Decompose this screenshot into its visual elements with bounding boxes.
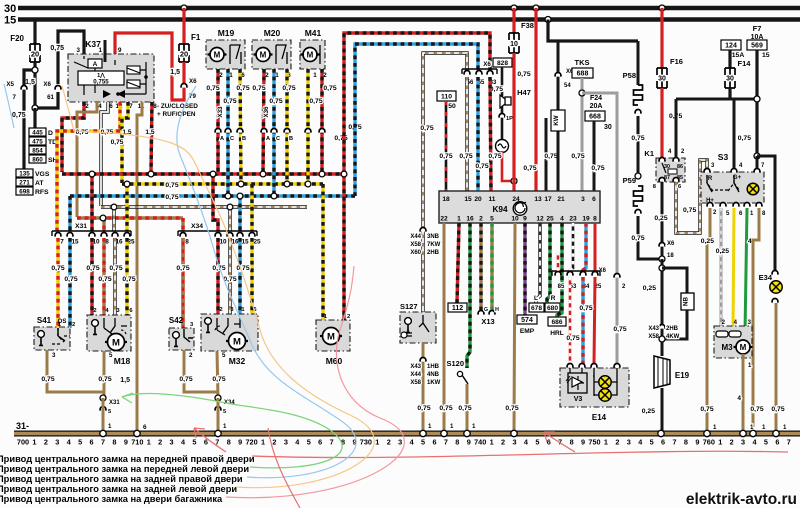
wire H47 to K94 pin 24 [502,151,512,181]
wire E19 to bus [661,388,664,432]
wire K94-10 brown to bus [514,223,515,432]
svg-text:4: 4 [560,216,564,223]
annotation red arrow at E14 [544,432,575,452]
wire S127 to bus [422,343,425,432]
svg-text:854: 854 [32,148,43,155]
svg-text:1: 1 [604,438,608,447]
svg-text:15: 15 [71,239,79,246]
node on bus 30 [181,5,187,11]
svg-text:S120: S120 [446,359,464,368]
wire X6-56 to K94 pin 15 [465,77,468,191]
svg-text:124: 124 [725,43,737,50]
wire S3 pin8 brown to bus [753,208,759,432]
svg-text:S127: S127 [400,302,418,311]
svg-text:X6: X6 [43,81,51,88]
svg-text:2: 2 [323,72,327,79]
svg-text:- ZU/CLOSED: - ZU/CLOSED [157,103,198,110]
svg-text:25: 25 [253,239,261,246]
svg-text:574: 574 [521,317,533,324]
wire E34 to bus [775,303,778,432]
wire F16 to K1 pin 4 [660,88,663,158]
mesh horizontal yellow-black y184 [122,182,323,185]
svg-text:M19: M19 [218,28,235,38]
svg-text:13: 13 [534,196,542,203]
svg-text:0,75: 0,75 [122,276,135,283]
wire bus15 to P58 [548,20,638,42]
svg-text:X44: X44 [410,234,421,240]
svg-text:686: 686 [551,319,562,326]
connector X13 [478,310,484,314]
svg-text:1,5: 1,5 [145,129,154,136]
svg-text:0,75: 0,75 [334,135,347,142]
svg-text:EMP: EMP [520,328,535,335]
svg-text:X31: X31 [75,223,87,230]
svg-text:1: 1 [783,424,787,431]
stub clamp 85 [557,252,560,271]
connector X36 clamps [261,129,267,133]
bus 30 (battery rail) [18,6,800,11]
svg-text:HRL: HRL [550,330,564,337]
annotation red curve lower [268,428,300,508]
svg-text:P59: P59 [623,176,636,185]
svg-text:50: 50 [448,103,456,110]
wire X34-15 blue-black [238,196,241,231]
svg-text:750: 750 [588,438,600,447]
svg-text:0,75: 0,75 [41,376,54,383]
fuse F14 [728,50,731,68]
motor M19 central locking front right [206,40,245,69]
svg-text:740: 740 [474,438,486,447]
svg-text:0,75: 0,75 [439,405,452,412]
svg-text:H47: H47 [517,88,531,97]
svg-text:20: 20 [180,50,188,59]
wire 668 to K94 pin 6 [593,121,596,191]
connector X31 [52,231,131,236]
svg-text:E19: E19 [675,371,690,380]
svg-text:VGS: VGS [35,171,50,178]
svg-text:16: 16 [466,216,474,223]
connector X33 clamps [215,129,221,133]
wire 828 to horn H47 [501,67,504,140]
wire K37 pin8 to mesh [151,102,152,172]
svg-text:15: 15 [762,52,770,59]
gray wire TKS to lamp unit E14 [582,93,617,364]
wire X31-10 to M18 pin2 [90,238,93,316]
wire K37 pin6 to mesh [101,102,108,206]
svg-text:688: 688 [577,71,589,78]
node X31 to bus 31 [100,395,106,401]
svg-text:F16: F16 [670,57,683,66]
svg-text:30: 30 [658,76,666,83]
svg-text:Привод центрального замка на п: Привод центрального замка на передней пр… [0,454,255,464]
wire X31-15 to S41 pin2 [68,238,71,328]
svg-text:1: 1 [229,72,233,79]
svg-text:0,75: 0,75 [236,265,249,272]
svg-text:20A: 20A [590,103,603,110]
svg-text:F20: F20 [10,34,24,43]
svg-text:0,75: 0,75 [223,98,236,105]
svg-text:9: 9 [124,438,128,447]
svg-text:12: 12 [536,216,544,223]
heater element P59 [634,186,643,206]
svg-text:678: 678 [531,305,542,312]
wire 110 to K94 pin 18 [445,101,448,191]
svg-text:0,75: 0,75 [683,207,696,214]
junction on TKS wire [579,90,585,96]
svg-text:22: 22 [440,216,448,223]
wire X34-8 to S42 pin3 [181,238,184,329]
svg-text:Привод центрального замка на з: Привод центрального замка на задней прав… [0,474,243,484]
svg-text:1HB: 1HB [427,364,440,370]
svg-text:85: 85 [558,284,565,290]
resistor NB branch [662,268,687,293]
svg-text:730: 730 [360,438,372,447]
svg-text:2: 2 [219,307,222,313]
svg-text:11: 11 [489,196,496,203]
svg-text:M: M [740,343,747,352]
svg-text:A: A [93,61,98,68]
wire X34-15 to M32 pin1 [238,238,241,315]
wire X6-83 to K94 pin 11 [490,77,491,191]
wire X31-25 yellow-black [125,184,128,231]
svg-text:3: 3 [170,438,174,447]
svg-text:5: 5 [109,352,113,359]
svg-text:X5: X5 [6,81,14,88]
svg-text:2: 2 [265,72,269,79]
svg-text:F1: F1 [191,33,201,42]
svg-text:1: 1 [490,438,494,447]
svg-text:+ RUF/OPEN: + RUF/OPEN [157,111,196,118]
svg-text:828: 828 [497,60,508,67]
connector X6 pin 61 [55,86,61,90]
svg-text:0,75: 0,75 [98,376,111,383]
box KW [551,110,565,131]
wire K94-9 to box 574 EMP [523,223,526,315]
wire X31-15 blue-black [68,196,71,231]
wire X31-10 red-black [90,174,93,231]
svg-text:7: 7 [129,103,133,110]
svg-text:30: 30 [4,3,16,15]
svg-text:A: A [220,136,224,142]
svg-text:5: 5 [650,438,654,447]
svg-text:X31: X31 [109,400,120,406]
svg-text:8: 8 [455,438,459,447]
wire M19-2 red-black [216,69,219,174]
svg-text:87: 87 [664,175,670,181]
svg-text:7: 7 [101,438,105,447]
svg-text:0,75: 0,75 [323,85,336,92]
svg-text:3: 3 [741,438,745,447]
svg-text:2: 2 [615,438,619,447]
code boxes 135/271/698 [16,169,33,177]
motor M60 trunk lock [316,320,350,351]
svg-text:720: 720 [246,438,258,447]
svg-text:6: 6 [592,196,596,203]
svg-text:0,75: 0,75 [631,235,644,242]
svg-text:5: 5 [490,216,494,223]
svg-text:X43: X43 [410,364,421,370]
wire X31-7 to S41 pin1 [56,238,59,328]
wire X31-16 to M18 pin3 [113,238,116,316]
wire to K94 pin 17 [545,118,548,191]
mesh horizontal red-black y174 [62,172,345,175]
svg-text:8: 8 [105,239,109,246]
blue-black arc to connector X6-55 [355,44,478,196]
wire K94-8 to clamp 25 [594,223,597,273]
svg-text:15: 15 [464,196,472,203]
svg-text:0,75: 0,75 [109,265,122,272]
svg-text:0,75: 0,75 [488,153,501,160]
box 110 / 50 [437,91,456,101]
svg-text:0,75: 0,75 [475,163,488,170]
S3 interior contacts [707,175,740,191]
svg-text:6: 6 [432,438,436,447]
svg-text:3: 3 [55,438,59,447]
svg-text:S3: S3 [718,152,729,162]
svg-text:31-: 31- [16,421,29,431]
svg-text:6: 6 [90,438,94,447]
wire to S3 pin 4 [733,99,736,170]
ground bus 31 [14,431,800,437]
svg-text:1: 1 [450,423,454,430]
svg-text:9: 9 [523,216,527,223]
wire M41-1 yellow-black [306,69,309,184]
node to E34 branch [754,153,760,159]
svg-text:21: 21 [557,196,565,203]
svg-text:110: 110 [441,94,452,101]
svg-text:3: 3 [52,352,56,359]
svg-text:M: M [233,336,241,347]
horizontal red-yellow link y131 [57,131,120,231]
svg-text:0,25: 0,25 [716,248,729,255]
wire M20-1 blue-black [272,69,275,196]
svg-text:Привод центрального замка на з: Привод центрального замка на задней лево… [0,484,237,494]
svg-text:NB: NB [683,297,690,306]
bus 31 junction dots [100,430,106,436]
svg-text:0,75: 0,75 [51,265,64,272]
wire to S3 pin 7 [756,156,759,170]
wire M3 pin1 to bus [742,354,745,432]
svg-text:0,75: 0,75 [165,182,178,189]
svg-text:25: 25 [546,216,554,223]
svg-text:18: 18 [442,196,450,203]
mesh horizontal brown-red y218 [77,216,183,219]
motor M3 [714,326,752,358]
svg-text:6: 6 [775,438,779,447]
wire K94-25 to box 680 [547,223,550,303]
svg-text:445: 445 [32,130,43,137]
svg-text:23: 23 [569,216,577,223]
svg-text:20: 20 [474,196,482,203]
svg-text:2: 2 [347,314,350,320]
svg-text:V3: V3 [574,396,583,403]
wire F14 chain to K1 pin 2 [675,99,678,158]
svg-text:0,25: 0,25 [701,238,714,245]
svg-text:710: 710 [131,438,143,447]
svg-text:7: 7 [60,239,64,246]
wire K37 pin7 to mesh [122,102,128,183]
svg-text:7KW: 7KW [427,242,441,248]
svg-text:569: 569 [751,43,763,50]
svg-text:0,75: 0,75 [212,376,225,383]
svg-text:19: 19 [582,216,590,223]
wire M20-6 yellow-black [285,69,288,184]
wire K94-2 to X13-G [479,223,482,310]
S3 bottom clamps [707,203,713,207]
svg-text:1: 1 [99,47,103,54]
svg-text:1: 1 [32,438,36,447]
wire X34-25 yellow-black [250,184,253,231]
svg-text:S42: S42 [169,316,184,325]
svg-text:4: 4 [737,395,741,402]
wire X34-10 to M32 pin2 [216,238,219,315]
svg-text:0,75: 0,75 [309,98,322,105]
svg-text:E14: E14 [592,413,607,422]
svg-text:R: R [708,176,713,182]
svg-text:M: M [327,331,335,342]
svg-text:K1: K1 [644,149,654,158]
wire to code boxes [33,108,36,128]
svg-text:2HB: 2HB [666,326,679,332]
svg-text:0,25: 0,25 [654,215,667,222]
wire P59 to node [638,216,662,259]
svg-text:54: 54 [564,83,571,89]
svg-text:C: C [230,136,234,142]
svg-text:0,75: 0,75 [269,98,282,105]
motor M18 central locking [87,315,131,351]
annotation curve red legend line 1 [252,451,788,457]
svg-text:8: 8 [185,239,189,246]
wire S3 pin6 yellow to M3 [733,208,734,333]
wire X31-8 brown-red [102,218,105,231]
svg-text:8: 8 [112,438,116,447]
motor M32 central locking [201,314,258,351]
svg-text:0,75: 0,75 [566,335,579,342]
connector bar X6 56/55/83 [462,69,497,74]
svg-text:1: 1 [147,438,151,447]
annotation red arrow at M32 [194,428,226,452]
svg-text:6: 6 [661,438,665,447]
svg-text:0,75: 0,75 [738,135,751,142]
svg-text:0,75: 0,75 [544,153,557,160]
connector clamps M41 [305,128,311,132]
mesh horizontal white-brown y207 [101,205,307,208]
mesh junction dots [89,171,95,177]
svg-text:9: 9 [467,438,471,447]
svg-text:668: 668 [589,114,601,121]
wire X34-8 brown-red [181,218,184,231]
svg-text:5: 5 [535,438,539,447]
svg-text:C: C [276,136,280,142]
wire S42 pin2 to node X34 [184,350,218,392]
svg-text:M: M [112,337,120,348]
svg-text:X34: X34 [191,223,203,230]
svg-text:1: 1 [718,438,722,447]
svg-text:G: G [484,307,488,313]
svg-text:1,5: 1,5 [25,79,35,86]
svg-text:A: A [266,136,270,142]
horizontal link F14 [676,98,757,101]
svg-text:0,75: 0,75 [523,165,536,172]
svg-text:0,75: 0,75 [750,406,763,413]
wire white-brown K1 pin 6 to S3 pin 3 [676,160,707,233]
svg-text:1: 1 [457,216,461,223]
svg-text:9: 9 [118,47,122,54]
lamp in S3 [747,183,759,195]
svg-text:1: 1 [261,438,265,447]
wire K1-8 chain down to E19 [661,259,664,356]
svg-text:0,75: 0,75 [417,405,430,412]
svg-text:M20: M20 [264,28,281,38]
connector X6 pin 79 [181,84,187,88]
svg-text:3: 3 [627,438,631,447]
svg-text:1: 1 [428,423,432,430]
wire S3 pin2 brown to bus [707,208,710,432]
svg-text:2HB: 2HB [427,250,440,256]
svg-text:B: B [242,136,246,142]
switch S41 [34,327,70,350]
svg-text:6: 6 [318,438,322,447]
wire X31-16 white-brown [112,207,115,231]
svg-text:X6: X6 [483,61,491,68]
wire M20-2 red-black [263,69,264,174]
svg-text:K94: K94 [492,205,507,214]
svg-text:2: 2 [44,438,48,447]
wire K94-16 to switch S120 [467,223,470,368]
svg-text:15: 15 [241,239,249,246]
svg-text:0,75: 0,75 [517,71,530,78]
svg-text:4: 4 [98,103,102,110]
branch to KW box and K94 pin 21 [557,41,560,191]
wire S3 pin1 green to M3 [745,208,747,333]
wire clamp 84 to E14 blue-red [581,277,584,364]
node [32,105,38,111]
svg-text:1: 1 [108,423,112,430]
svg-text:8: 8 [593,216,597,223]
svg-text:1,5: 1,5 [120,377,130,384]
wire K37 pin4 to mesh [77,102,97,217]
wire K94-1 to box 112 [457,223,459,303]
svg-text:86: 86 [677,164,683,170]
wire S41 pin3 to node X31 [47,350,103,392]
svg-text:30: 30 [604,124,612,131]
wire K94-12 to box 678 [536,223,540,303]
svg-text:X43: X43 [648,326,659,332]
node junction [32,67,38,73]
K37 internal electronics [88,59,102,68]
wire K37 pin12 yellow-red [118,102,121,131]
wire K94-5 to X13-H [490,223,493,310]
node X34 to bus 31 [215,395,221,401]
svg-text:61: 61 [47,94,54,101]
svg-text:6: 6 [547,438,551,447]
wire clamp 25 to E14 red [594,277,595,364]
svg-text:2: 2 [501,438,505,447]
svg-text:271: 271 [19,180,30,187]
svg-text:2: 2 [272,438,276,447]
svg-text:1,5: 1,5 [170,69,180,76]
svg-text:2: 2 [72,322,75,328]
svg-text:0,75: 0,75 [700,406,713,413]
svg-text:1: 1 [313,72,317,79]
svg-text:16: 16 [231,239,239,246]
svg-text:AT: AT [35,180,44,187]
svg-text:10: 10 [511,216,519,223]
svg-text:4KW: 4KW [666,334,680,340]
svg-text:5: 5 [192,438,196,447]
code boxes 445/475/854/860 [29,128,46,136]
svg-text:X13: X13 [481,317,494,326]
